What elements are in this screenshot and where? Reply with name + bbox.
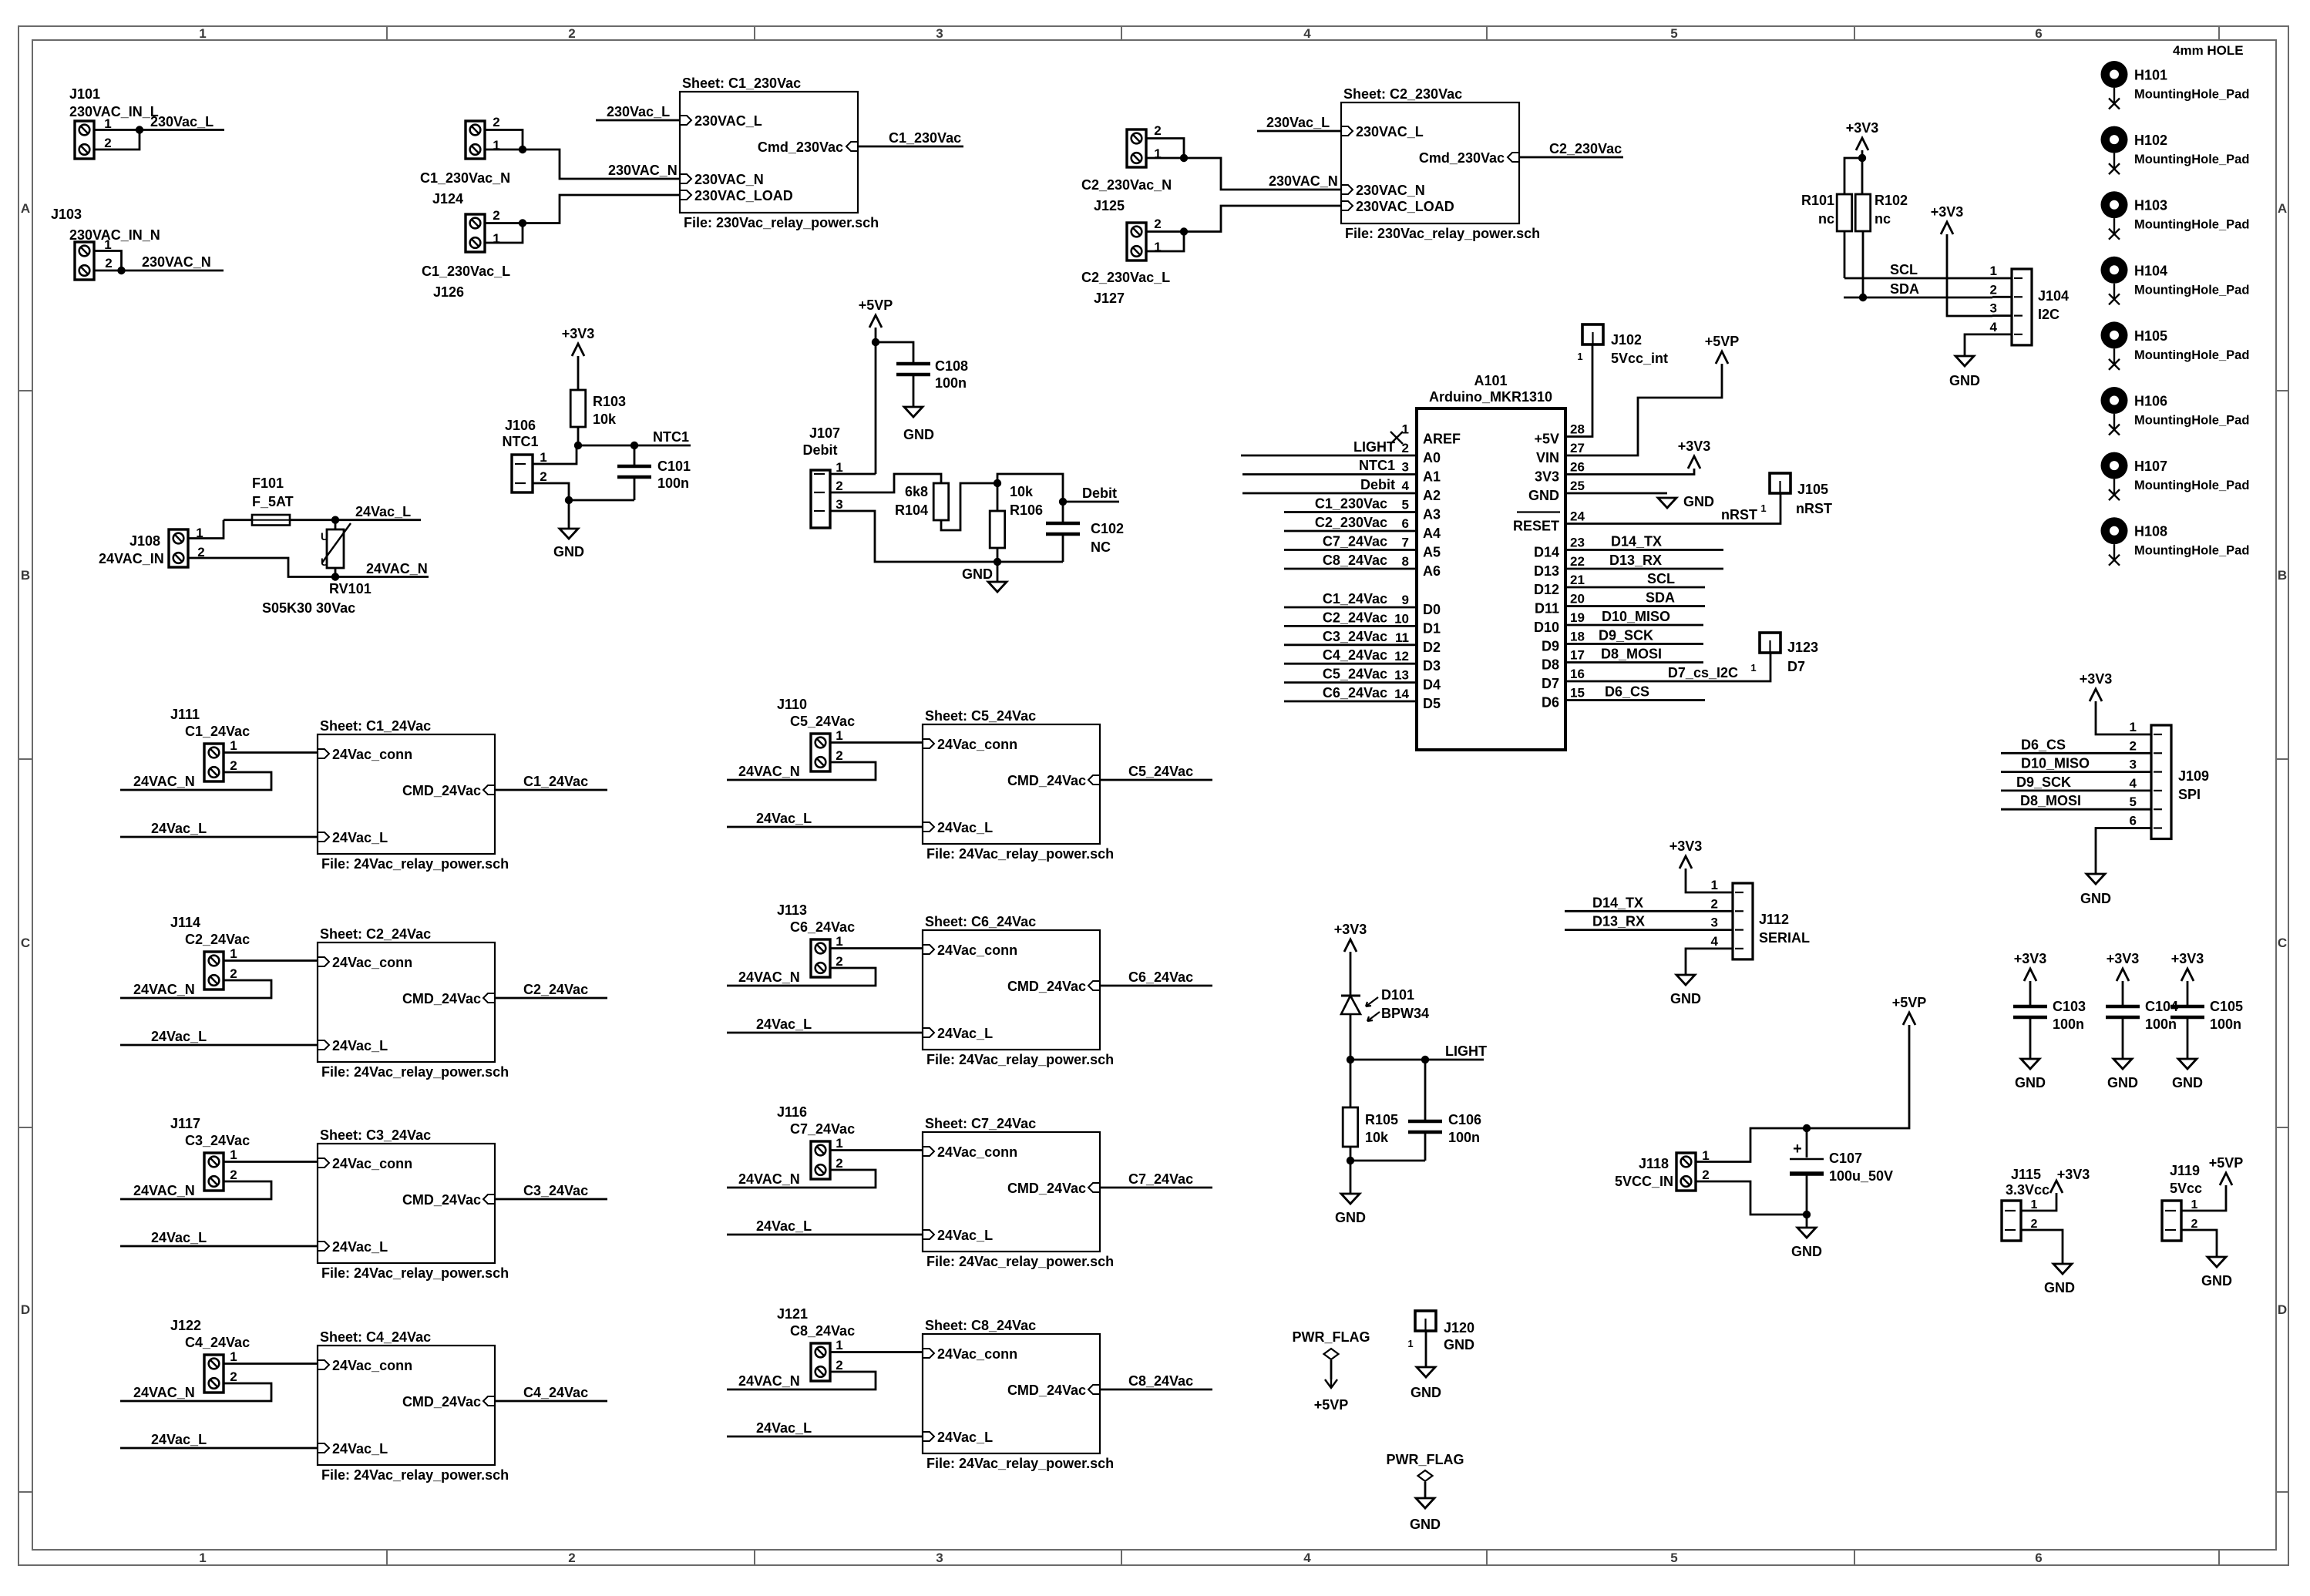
junction — [994, 558, 1001, 566]
svg-text:A3: A3 — [1423, 507, 1441, 522]
svg-text:GND: GND — [2107, 1075, 2138, 1090]
wire — [224, 1161, 318, 1163]
svg-text:GND: GND — [553, 544, 584, 559]
wire GND pin — [1565, 492, 1667, 495]
svg-text:1: 1 — [1750, 662, 1756, 674]
svg-text:1: 1 — [1577, 351, 1582, 362]
svg-text:D3: D3 — [1423, 658, 1441, 674]
wire — [997, 548, 999, 562]
wire C6_24Vac — [1284, 701, 1417, 703]
svg-text:D1: D1 — [1423, 620, 1441, 636]
wire — [1146, 230, 1184, 233]
svg-text:C7_24Vac: C7_24Vac — [1323, 534, 1387, 549]
svg-text:+3V3: +3V3 — [1669, 838, 1703, 854]
svg-text:3: 3 — [1711, 916, 1718, 930]
svg-text:+5VP: +5VP — [1314, 1397, 1349, 1413]
wire 24Vac_L — [335, 519, 421, 521]
svg-text:+5VP: +5VP — [1892, 995, 1927, 1010]
ground GND J119 — [2207, 1257, 2226, 1267]
svg-text:File: 230Vac_relay_power.sch: File: 230Vac_relay_power.sch — [1345, 226, 1540, 241]
svg-text:J111: J111 — [170, 707, 200, 722]
svg-text:5: 5 — [2130, 795, 2137, 809]
svg-text:RV101: RV101 — [329, 581, 372, 596]
svg-text:A0: A0 — [1423, 450, 1441, 465]
svg-text:24Vac_L: 24Vac_L — [355, 504, 411, 519]
wire C5_24Vac — [1284, 681, 1417, 684]
svg-text:+5VP: +5VP — [859, 297, 893, 313]
svg-text:9: 9 — [1402, 593, 1409, 607]
svg-text:C4_24Vac: C4_24Vac — [523, 1385, 588, 1400]
wire C1_230Vac — [1284, 511, 1417, 513]
svg-text:4: 4 — [2130, 776, 2137, 791]
sheet C8_24Vac — [923, 1334, 1100, 1453]
svg-text:F_5AT: F_5AT — [252, 494, 294, 509]
power +5VP near J102 — [1716, 351, 1728, 364]
svg-text:+3V3: +3V3 — [1931, 204, 1964, 220]
wire — [577, 427, 580, 445]
ground GND C105 — [2178, 1059, 2197, 1069]
photodiode D101 BPW34 — [1341, 995, 1360, 997]
wire C2_24Vac output — [495, 997, 607, 1000]
svg-text:230VAC_L: 230VAC_L — [694, 113, 762, 129]
svg-text:J112: J112 — [1759, 912, 1789, 927]
svg-text:H105: H105 — [2134, 328, 2167, 344]
wire — [875, 328, 877, 474]
svg-text:Sheet: C6_24Vac: Sheet: C6_24Vac — [925, 914, 1036, 929]
svg-text:24Vac_L: 24Vac_L — [756, 1016, 812, 1032]
wire — [120, 772, 271, 790]
wire — [120, 980, 271, 998]
svg-text:+3V3: +3V3 — [2107, 951, 2140, 966]
svg-text:24Vac_conn: 24Vac_conn — [937, 1144, 1017, 1160]
wire — [2096, 828, 2132, 875]
svg-text:J110: J110 — [777, 697, 807, 712]
wire — [727, 1372, 876, 1389]
svg-text:2: 2 — [568, 26, 575, 41]
svg-text:B: B — [2278, 568, 2287, 583]
svg-text:100n: 100n — [2210, 1016, 2241, 1032]
svg-text:S05K30 30Vac: S05K30 30Vac — [262, 600, 355, 616]
svg-text:File: 24Vac_relay_power.sch: File: 24Vac_relay_power.sch — [926, 1052, 1114, 1067]
wire D14_TX — [1565, 910, 1713, 912]
svg-text:GND: GND — [1949, 373, 1980, 388]
svg-text:24: 24 — [1570, 509, 1585, 524]
resistor R105 10k — [1343, 1107, 1358, 1147]
junction — [331, 573, 339, 580]
wire C1_24Vac output — [495, 789, 607, 791]
junction — [1059, 498, 1067, 506]
svg-text:C6_24Vac: C6_24Vac — [1128, 969, 1193, 985]
junction — [1803, 1124, 1811, 1132]
svg-text:Debit: Debit — [1082, 486, 1117, 501]
wire — [1565, 364, 1722, 455]
svg-text:BPW34: BPW34 — [1381, 1006, 1429, 1021]
connector J125 C2_230Vac_N — [1127, 129, 1146, 167]
wire C3_24Vac — [1284, 643, 1417, 646]
svg-text:C4_24Vac: C4_24Vac — [1323, 647, 1387, 663]
svg-text:D6: D6 — [1542, 695, 1559, 711]
connector J115 3.3Vcc — [2002, 1201, 2021, 1241]
wire NTC1 net — [578, 445, 691, 447]
wire SDA — [1565, 605, 1705, 607]
svg-text:C108: C108 — [935, 358, 968, 374]
wire — [120, 1383, 271, 1401]
wire 24Vac_L — [120, 1447, 318, 1450]
ground GND R106 — [997, 562, 999, 582]
svg-text:C: C — [2278, 936, 2287, 950]
svg-text:6: 6 — [2130, 814, 2137, 828]
svg-text:2: 2 — [230, 1369, 237, 1384]
svg-text:C8_24Vac: C8_24Vac — [1323, 553, 1387, 568]
svg-text:5Vcc: 5Vcc — [2170, 1181, 2202, 1196]
wire D9_SCK — [1565, 643, 1703, 645]
svg-text:1: 1 — [199, 1551, 206, 1565]
wire — [876, 342, 913, 364]
svg-text:J121: J121 — [777, 1306, 808, 1322]
svg-text:B: B — [21, 568, 30, 583]
svg-text:MountingHole_Pad: MountingHole_Pad — [2134, 544, 2249, 558]
svg-text:24VAC_N: 24VAC_N — [738, 764, 800, 779]
capacitor C108 100n — [896, 362, 930, 366]
wire — [830, 473, 876, 475]
resistor R103 10k — [570, 390, 586, 427]
svg-text:H103: H103 — [2134, 198, 2167, 213]
svg-text:D2: D2 — [1423, 640, 1441, 655]
capacitor C102 NC — [1062, 502, 1064, 523]
svg-text:24Vac_L: 24Vac_L — [151, 1432, 207, 1447]
no-connect AREF — [1390, 432, 1403, 444]
svg-text:C1_230Vac_L: C1_230Vac_L — [422, 264, 510, 279]
resistor R104 6k8 — [933, 483, 949, 520]
svg-text:24Vac_conn: 24Vac_conn — [332, 747, 412, 762]
svg-text:16: 16 — [1570, 667, 1585, 681]
svg-text:24Vac_L: 24Vac_L — [332, 1239, 388, 1255]
svg-text:LIGHT: LIGHT — [1445, 1043, 1487, 1059]
ground GND J109 — [2086, 874, 2105, 884]
svg-text:+3V3: +3V3 — [562, 326, 595, 341]
svg-text:D14: D14 — [1534, 545, 1559, 560]
junction — [1858, 154, 1866, 162]
wire — [1350, 952, 1352, 996]
junction — [872, 338, 879, 346]
svg-text:13: 13 — [1394, 668, 1409, 683]
junction — [994, 479, 1001, 487]
svg-text:100n: 100n — [935, 375, 967, 391]
wire to sheet 230VAC_LOAD — [1184, 206, 1341, 232]
junction — [1180, 154, 1188, 162]
sheet C5_24Vac — [923, 724, 1100, 844]
svg-text:4mm HOLE: 4mm HOLE — [2173, 43, 2244, 58]
svg-text:R105: R105 — [1365, 1112, 1398, 1127]
svg-text:PWR_FLAG: PWR_FLAG — [1387, 1452, 1464, 1467]
svg-text:1: 1 — [230, 1349, 237, 1364]
wire — [913, 375, 915, 407]
svg-text:nRST: nRST — [1796, 501, 1832, 516]
svg-text:1: 1 — [836, 728, 842, 743]
svg-text:GND: GND — [2201, 1273, 2232, 1289]
power +3V3 J112 — [1680, 856, 1692, 869]
wire Debit — [1063, 501, 1119, 503]
svg-text:2: 2 — [1154, 123, 1161, 138]
svg-text:GND: GND — [2080, 891, 2111, 906]
svg-text:Sheet: C8_24Vac: Sheet: C8_24Vac — [925, 1318, 1036, 1333]
svg-text:2: 2 — [836, 1156, 842, 1171]
svg-text:1: 1 — [1711, 878, 1718, 892]
svg-text:Sheet: C3_24Vac: Sheet: C3_24Vac — [320, 1127, 431, 1143]
power +5VP J119 — [2220, 1173, 2232, 1185]
wire D6_CS — [1565, 699, 1705, 701]
wire — [188, 520, 224, 539]
svg-text:2: 2 — [2130, 738, 2137, 753]
svg-text:24Vac_L: 24Vac_L — [756, 1420, 812, 1436]
svg-text:22: 22 — [1570, 554, 1585, 569]
svg-text:CMD_24Vac: CMD_24Vac — [402, 783, 481, 798]
svg-text:C2_24Vac: C2_24Vac — [1323, 610, 1387, 625]
wire — [1565, 469, 1694, 475]
wire — [830, 474, 941, 492]
wire to sheet 230VAC_LOAD — [523, 195, 680, 223]
svg-text:C2_230Vac_N: C2_230Vac_N — [1081, 177, 1172, 193]
svg-text:C3_24Vac: C3_24Vac — [185, 1133, 250, 1148]
svg-text:+3V3: +3V3 — [2057, 1167, 2090, 1182]
svg-text:CMD_24Vac: CMD_24Vac — [402, 991, 481, 1006]
power +5VP J107 — [869, 315, 882, 328]
svg-text:6: 6 — [2035, 26, 2042, 41]
svg-text:C1_24Vac: C1_24Vac — [1323, 591, 1387, 606]
svg-text:24Vac_conn: 24Vac_conn — [937, 737, 1017, 752]
svg-text:U: U — [321, 556, 328, 568]
power +3V3 J115 — [2050, 1181, 2063, 1193]
svg-text:Sheet: C2_24Vac: Sheet: C2_24Vac — [320, 926, 431, 942]
junction — [1180, 227, 1188, 235]
svg-text:1: 1 — [2191, 1198, 2198, 1211]
junction — [1347, 1157, 1354, 1164]
wire — [1844, 158, 1862, 194]
wire C2_24Vac — [1284, 625, 1417, 627]
sheet C2_24Vac — [318, 942, 495, 1062]
svg-text:25: 25 — [1570, 479, 1585, 493]
power +3V3 J109 — [2090, 689, 2102, 701]
svg-text:21: 21 — [1570, 573, 1585, 587]
svg-text:C107: C107 — [1829, 1151, 1862, 1166]
wire 230Vac_L into sheet — [596, 119, 680, 122]
svg-text:+3V3: +3V3 — [2171, 951, 2204, 966]
svg-text:4: 4 — [1303, 1551, 1311, 1565]
svg-text:C2_230Vac: C2_230Vac — [1315, 515, 1387, 530]
wire — [1686, 869, 1713, 892]
svg-text:C1_230Vac: C1_230Vac — [1315, 496, 1387, 512]
mounting hole H102 — [2101, 126, 2128, 153]
svg-text:2: 2 — [568, 1551, 575, 1565]
svg-text:GND: GND — [1683, 494, 1714, 509]
svg-text:5: 5 — [1670, 1551, 1677, 1565]
junction — [574, 442, 582, 449]
svg-text:NTC1: NTC1 — [502, 434, 538, 449]
svg-text:24VAC_N: 24VAC_N — [133, 1183, 195, 1198]
svg-text:C2_24Vac: C2_24Vac — [185, 932, 250, 947]
wire 24Vac_L — [727, 1032, 923, 1034]
mounting hole H108 — [2101, 517, 2128, 544]
svg-text:10k: 10k — [1365, 1130, 1389, 1145]
wire 24VAC_N — [335, 576, 429, 578]
junction — [117, 267, 125, 274]
svg-text:D4: D4 — [1423, 677, 1441, 693]
svg-text:+5VP: +5VP — [2209, 1155, 2244, 1171]
svg-text:+5VP: +5VP — [1705, 334, 1740, 349]
svg-text:26: 26 — [1570, 460, 1585, 475]
wire — [727, 968, 876, 986]
svg-text:H108: H108 — [2134, 524, 2167, 539]
wire — [1350, 1147, 1352, 1194]
svg-text:3: 3 — [836, 497, 842, 512]
svg-text:J106: J106 — [505, 418, 536, 433]
svg-text:24VAC_N: 24VAC_N — [738, 969, 800, 985]
connector J124 C1_230Vac_N — [466, 121, 485, 159]
svg-text:4: 4 — [1303, 26, 1311, 41]
arduino A101 Arduino_MKR1310 — [1417, 408, 1565, 750]
svg-text:24Vac_L: 24Vac_L — [151, 1029, 207, 1044]
wire D13_RX — [1565, 568, 1723, 570]
svg-text:3V3: 3V3 — [1535, 469, 1559, 485]
svg-text:D14_TX: D14_TX — [1592, 895, 1643, 910]
svg-text:A2: A2 — [1423, 488, 1441, 503]
wire 230Vac_L into sheet — [1257, 130, 1341, 133]
svg-text:6: 6 — [2035, 1551, 2042, 1565]
svg-text:3: 3 — [2130, 758, 2137, 772]
svg-text:NTC1: NTC1 — [653, 429, 689, 445]
svg-text:C7_24Vac: C7_24Vac — [1128, 1171, 1193, 1187]
capacitor C103 100n — [2029, 981, 2032, 1006]
svg-text:230Vac_L: 230Vac_L — [607, 104, 670, 119]
wire D10_MISO — [1565, 624, 1703, 627]
svg-text:8: 8 — [1402, 554, 1409, 569]
ground GND C108 — [904, 407, 923, 417]
wire D8_MOSI — [2001, 808, 2132, 811]
svg-text:J123: J123 — [1787, 640, 1818, 655]
svg-text:2: 2 — [493, 115, 499, 129]
svg-text:C101: C101 — [657, 459, 691, 474]
svg-text:24Vac_L: 24Vac_L — [332, 830, 388, 845]
svg-text:230VAC_N: 230VAC_N — [1269, 173, 1338, 189]
svg-text:3: 3 — [936, 1551, 943, 1565]
capacitor C101 100n — [634, 445, 636, 466]
svg-text:24Vac_L: 24Vac_L — [756, 811, 812, 826]
RESET overline — [1517, 511, 1560, 512]
svg-text:C1_24Vac: C1_24Vac — [523, 774, 588, 789]
svg-text:2: 2 — [104, 136, 111, 150]
mounting hole H101 — [2101, 61, 2128, 88]
svg-text:R106: R106 — [1010, 502, 1043, 518]
svg-text:SERIAL: SERIAL — [1759, 930, 1810, 946]
connector J102 5Vcc_int — [1582, 324, 1603, 344]
wire C5_24Vac output — [1100, 779, 1212, 781]
svg-text:C7_24Vac: C7_24Vac — [790, 1121, 855, 1137]
wire C1_24Vac — [1284, 606, 1417, 609]
svg-text:Sheet: C4_24Vac: Sheet: C4_24Vac — [320, 1329, 431, 1345]
svg-text:C105: C105 — [2210, 999, 2243, 1014]
svg-text:1: 1 — [230, 1147, 237, 1162]
svg-text:24VAC_N: 24VAC_N — [133, 774, 195, 789]
capacitor C107 100u_50V polarized — [1806, 1128, 1808, 1158]
svg-text:27: 27 — [1570, 441, 1585, 455]
svg-text:20: 20 — [1570, 592, 1585, 606]
svg-text:24Vac_L: 24Vac_L — [937, 820, 993, 835]
svg-text:2: 2 — [540, 469, 546, 484]
svg-text:J119: J119 — [2170, 1163, 2200, 1178]
svg-text:J104: J104 — [2038, 288, 2069, 304]
svg-text:230VAC_LOAD: 230VAC_LOAD — [694, 188, 793, 203]
svg-text:12: 12 — [1394, 649, 1409, 664]
svg-text:File: 24Vac_relay_power.sch: File: 24Vac_relay_power.sch — [926, 1254, 1114, 1269]
svg-text:C2_230Vac_L: C2_230Vac_L — [1081, 270, 1170, 285]
svg-text:J103: J103 — [51, 207, 82, 222]
svg-text:CMD_24Vac: CMD_24Vac — [1007, 1181, 1086, 1196]
ground GND A101 — [1658, 498, 1676, 508]
svg-text:D9_SCK: D9_SCK — [2016, 774, 2071, 790]
wire — [533, 483, 569, 500]
svg-text:24VAC_N: 24VAC_N — [133, 982, 195, 997]
svg-text:2: 2 — [1711, 896, 1718, 911]
svg-text:R103: R103 — [593, 394, 626, 409]
svg-text:J105: J105 — [1797, 482, 1828, 497]
svg-text:SCL: SCL — [1647, 571, 1675, 586]
svg-text:nc: nc — [1875, 211, 1891, 227]
svg-text:GND: GND — [1411, 1385, 1441, 1400]
wire D9_SCK — [2001, 790, 2132, 792]
svg-text:J108: J108 — [129, 533, 160, 549]
svg-text:1: 1 — [1402, 422, 1409, 437]
wire — [727, 762, 876, 780]
wire — [1565, 344, 1592, 437]
wire D14_TX — [1565, 549, 1723, 551]
svg-text:C2_24Vac: C2_24Vac — [523, 982, 588, 997]
svg-text:24Vac_L: 24Vac_L — [937, 1026, 993, 1041]
wire — [1696, 1128, 1807, 1162]
wire 24Vac_L — [727, 826, 923, 828]
connector J120 GND — [1415, 1311, 1436, 1331]
svg-text:2: 2 — [230, 1168, 237, 1182]
svg-text:MountingHole_Pad: MountingHole_Pad — [2134, 479, 2249, 492]
svg-text:D13: D13 — [1534, 563, 1559, 579]
capacitor C104 100n — [2122, 981, 2124, 1006]
wire 24Vac_L — [727, 1234, 923, 1236]
svg-text:NC: NC — [1091, 539, 1111, 555]
junction — [1803, 1211, 1811, 1218]
svg-text:R102: R102 — [1875, 193, 1908, 208]
connector J104 I2C — [2012, 269, 2032, 345]
svg-text:LIGHT: LIGHT — [1353, 439, 1395, 455]
wire C6_24Vac output — [1100, 985, 1212, 987]
svg-text:H107: H107 — [2134, 459, 2167, 474]
svg-text:nc: nc — [1818, 211, 1834, 227]
power +3V3 J104 — [1941, 222, 1953, 234]
svg-text:2: 2 — [230, 758, 237, 773]
svg-text:D0: D0 — [1423, 602, 1441, 617]
connector J126 C1_230Vac_L — [466, 214, 485, 252]
wire — [2181, 1230, 2217, 1257]
svg-text:CMD_24Vac: CMD_24Vac — [1007, 979, 1086, 994]
svg-text:D13_RX: D13_RX — [1592, 914, 1645, 929]
wire — [120, 1181, 271, 1199]
svg-text:D8_MOSI: D8_MOSI — [1601, 647, 1662, 662]
ground GND J104 — [1955, 356, 1974, 366]
connector J106 NTC1 — [512, 455, 533, 492]
svg-text:C8_24Vac: C8_24Vac — [790, 1323, 855, 1339]
connector J127 C2_230Vac_L — [1127, 223, 1146, 260]
wire SCL — [1844, 231, 1846, 278]
svg-text:RESET: RESET — [1513, 519, 1559, 534]
svg-text:Debit: Debit — [1360, 477, 1395, 492]
